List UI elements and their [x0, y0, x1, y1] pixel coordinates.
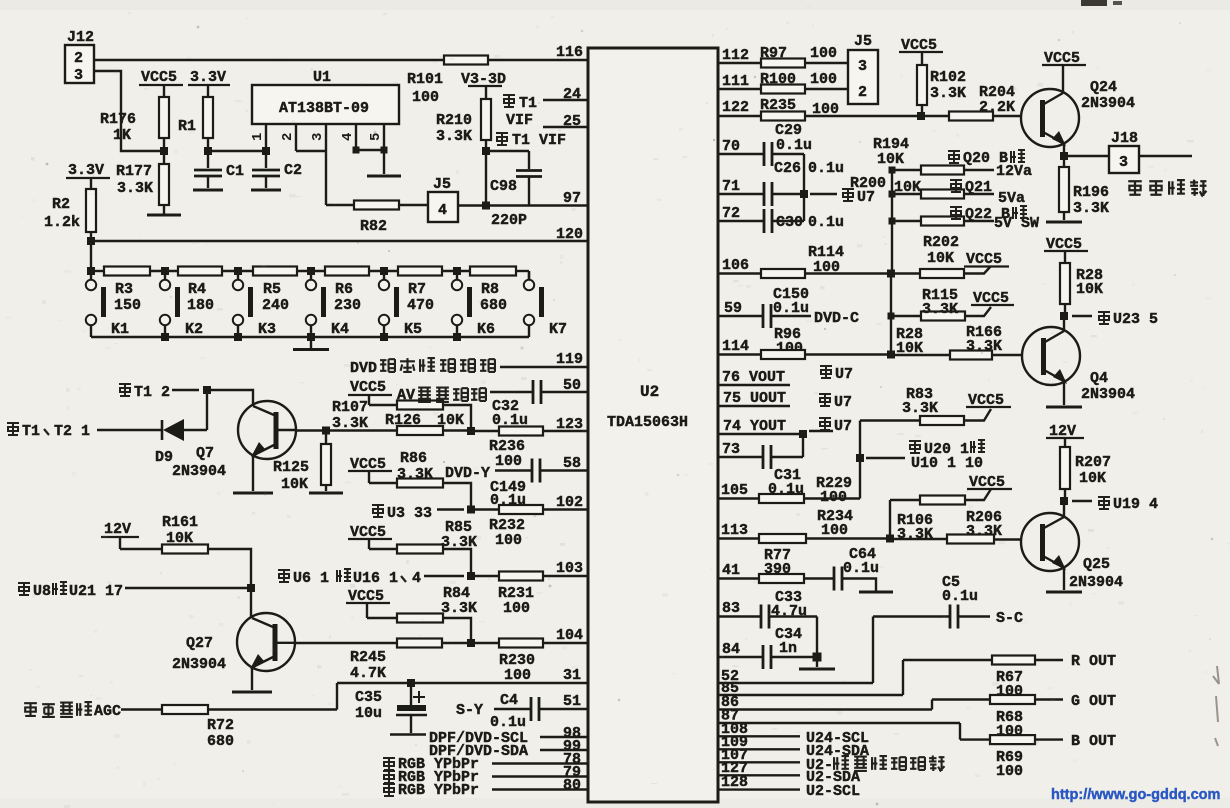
svg-text:C35: C35 — [355, 689, 382, 706]
label 接U7 (pin75) — [819, 394, 852, 411]
pin 5 of U1 — [368, 124, 384, 150]
label 接RGB YPbPr (pin80) — [383, 777, 589, 799]
svg-text:122: 122 — [722, 99, 749, 116]
capacitor C5 — [873, 605, 990, 629]
wire U1 pin3 down to R82 — [325, 151, 327, 205]
svg-text:VCC5: VCC5 — [350, 379, 386, 396]
svg-text:K2: K2 — [185, 321, 203, 338]
svg-text:83: 83 — [722, 600, 740, 617]
pin 73 of U2 wire — [717, 441, 763, 458]
svg-text:4: 4 — [438, 202, 447, 219]
pin 113 of U2 wire — [717, 522, 759, 539]
wire AGC line up to pin31 line — [336, 683, 338, 710]
label 接T1 VIF (pin25) — [496, 132, 566, 149]
scan artifact right edge — [1213, 666, 1219, 746]
svg-text:2: 2 — [74, 50, 83, 67]
pin 106 of U2 wire — [717, 257, 761, 274]
svg-text:119: 119 — [556, 351, 583, 368]
node C26 / 接U7 — [800, 190, 808, 198]
transistor Q27 2N3904 — [172, 588, 295, 673]
svg-text:3.3K: 3.3K — [436, 128, 472, 145]
power VCC5 (R86) — [348, 456, 392, 483]
wire C33 to C34 node — [816, 617, 818, 658]
svg-text:C2: C2 — [284, 162, 302, 179]
pin 114 of U2 wire — [717, 338, 761, 355]
capacitor C31 0.1u — [763, 434, 804, 498]
switch K6 — [452, 271, 495, 338]
wire C29/C26/C30 common — [803, 154, 805, 221]
svg-text:U7: U7 — [834, 394, 852, 411]
pin 71 of U2 wire — [717, 178, 764, 195]
pin 2 of U1 — [280, 124, 296, 151]
svg-text:680: 680 — [207, 733, 234, 750]
node 接T1-2 / D9 / Q7 collector — [203, 386, 211, 394]
svg-text:10K: 10K — [894, 179, 921, 196]
wire Q7 base to R126 — [296, 429, 397, 431]
svg-text:100: 100 — [495, 453, 522, 470]
resistor R230 100 — [471, 639, 543, 685]
svg-text:T2 1: T2 1 — [54, 423, 90, 440]
transistor Q24 2N3904 — [1021, 79, 1135, 147]
svg-text:2: 2 — [858, 84, 867, 101]
svg-text:680: 680 — [480, 297, 507, 314]
pin 70 of U2 wire — [717, 138, 764, 155]
resistor R236 100 — [471, 427, 543, 471]
svg-text:10K: 10K — [281, 476, 308, 493]
pin 83 of U2 wire — [717, 600, 761, 617]
node R2 / pin120 / key ladder — [87, 237, 95, 245]
pin 59 of U2 wire — [717, 300, 763, 317]
resistor R96 body — [761, 350, 891, 359]
label 接Q21 — [950, 179, 992, 196]
power VCC5 (R107) — [348, 379, 392, 405]
svg-text:2N3904: 2N3904 — [1081, 95, 1135, 112]
node keypad bottom 1 — [161, 333, 169, 341]
svg-text:Q24: Q24 — [1090, 79, 1117, 96]
svg-text:K1: K1 — [111, 321, 129, 338]
svg-text:75 UOUT: 75 UOUT — [723, 390, 786, 407]
svg-text:4: 4 — [340, 133, 356, 141]
svg-text:10K: 10K — [1076, 281, 1103, 298]
svg-text:3.3K: 3.3K — [930, 85, 966, 102]
capacitor C149 0.1u — [490, 459, 540, 510]
label DVD keypad signal input (pin119) — [350, 358, 495, 377]
svg-text:0.1u: 0.1u — [808, 214, 844, 231]
svg-text:R2: R2 — [52, 196, 70, 213]
svg-text:R161: R161 — [162, 514, 198, 531]
resistor R245 4.7K — [350, 639, 471, 683]
svg-text:AT138BT-09: AT138BT-09 — [279, 100, 369, 117]
ground below R177 — [147, 205, 181, 215]
node R176/R177/J12 — [160, 147, 168, 155]
svg-text:T1 VIF: T1 VIF — [512, 132, 566, 149]
resistor R176 1K — [100, 97, 169, 151]
svg-text:VCC5: VCC5 — [141, 69, 177, 86]
svg-text:104: 104 — [556, 627, 583, 644]
pin 120 of U2 wire — [91, 226, 589, 243]
resistor R161 10K — [120, 514, 251, 588]
node R207 / Q25 collector — [1060, 497, 1068, 505]
svg-text:RGB YPbPr: RGB YPbPr — [398, 782, 479, 799]
svg-text:106: 106 — [722, 257, 749, 274]
node keypad row 2 — [234, 267, 242, 275]
svg-text:U3 33: U3 33 — [387, 505, 432, 522]
power VCC5 (R84) — [346, 588, 390, 618]
power 12V (R207) — [1046, 423, 1084, 447]
wire J12 pin2 to U2 pin116 — [94, 59, 589, 61]
svg-text:U7: U7 — [857, 189, 875, 206]
svg-text:R107: R107 — [332, 399, 368, 416]
resistor R114 100 — [761, 244, 891, 278]
svg-text:10K: 10K — [927, 250, 954, 267]
svg-text:C26: C26 — [774, 160, 801, 177]
wire vertical R115 segment — [890, 274, 892, 355]
label U2-chip-select signal output — [806, 756, 944, 774]
node R96/R166 (pin114) — [887, 351, 895, 359]
pin 111 of U2 wire — [717, 73, 761, 90]
label 接Q22 B极 — [950, 206, 1027, 223]
svg-text:10K: 10K — [877, 151, 904, 168]
svg-text:R176: R176 — [100, 111, 136, 128]
power 3.3V (R1) — [188, 69, 230, 97]
svg-text:2N3904: 2N3904 — [1081, 386, 1135, 403]
label 接U20 1及 U10 1 10 — [866, 440, 985, 472]
svg-text:3.3K: 3.3K — [897, 526, 933, 543]
capacitor C30 0.1u — [764, 209, 844, 233]
label 接U7 (pin76) — [820, 366, 853, 383]
svg-text:U23 5: U23 5 — [1113, 311, 1158, 328]
svg-text:103: 103 — [556, 560, 583, 577]
svg-text:U6 1: U6 1 — [293, 570, 329, 587]
svg-text:R6: R6 — [335, 281, 353, 298]
capacitor C26 0.1u — [764, 160, 844, 206]
node keypad row 5 — [453, 267, 461, 275]
node keypad bottom 4 — [380, 333, 388, 341]
svg-text:70: 70 — [722, 138, 740, 155]
label AV video input (pin50) — [397, 387, 532, 404]
label DPF/DVD-SCL (pin98) — [429, 725, 589, 747]
pin 74 of U2 wire — [717, 418, 803, 435]
svg-text:12V: 12V — [104, 521, 131, 538]
label 接高频头AGC — [24, 702, 162, 720]
svg-text:1K: 1K — [113, 127, 131, 144]
pin 75 of U2 wire — [717, 390, 790, 407]
resistor R102 3.3K — [917, 65, 966, 116]
svg-text:R OUT: R OUT — [1071, 653, 1116, 670]
pin 4 of U1 — [340, 124, 356, 150]
node U1 pin1 / C2 — [262, 147, 270, 155]
capacitor C2 — [251, 151, 302, 190]
label C5 0.1u — [942, 574, 978, 605]
svg-text:100: 100 — [504, 667, 531, 684]
capacitor C4 0.1u — [490, 692, 539, 731]
svg-text:51: 51 — [563, 693, 581, 710]
wire node to Q7 collector — [207, 390, 253, 405]
svg-text:2N3904: 2N3904 — [172, 656, 226, 673]
scan artifact top right — [1081, 0, 1122, 6]
label 接U7 (pin74) — [809, 418, 852, 435]
svg-text:31: 31 — [563, 667, 581, 684]
svg-text:R7: R7 — [408, 281, 426, 298]
wire J12 pin3 down to R176 R177 node — [94, 71, 164, 151]
label 接T1 VIF (pin24) — [503, 95, 537, 129]
svg-text:230: 230 — [334, 297, 361, 314]
pin 1 of U1 — [250, 124, 266, 151]
power V3-3D — [461, 71, 506, 99]
svg-text:111: 111 — [722, 73, 749, 90]
pin 122 of U2 wire — [717, 99, 761, 116]
transistor Q25 2N3904 — [1021, 501, 1123, 591]
svg-text:AGC: AGC — [94, 703, 121, 720]
svg-text:Q21: Q21 — [965, 179, 992, 196]
pin 52 of U2 wire — [717, 668, 873, 685]
label 接RGB YPbPr (pin78) — [383, 751, 589, 773]
svg-text:116: 116 — [556, 44, 583, 61]
svg-text:Q7: Q7 — [196, 445, 214, 462]
label 接U8及U21 17 — [18, 582, 247, 600]
svg-text:73: 73 — [722, 441, 740, 458]
resistor R72 680 — [162, 705, 337, 750]
svg-text:240: 240 — [262, 297, 289, 314]
svg-text:R97: R97 — [760, 45, 787, 62]
pin 50 of U2 wire — [541, 377, 589, 394]
pin 58 of U2 wire — [540, 455, 589, 472]
svg-text:220P: 220P — [491, 212, 527, 229]
resistor R28 10K vertical — [1060, 263, 1103, 316]
power 12V (R161) — [101, 521, 139, 549]
power VCC5 (R102) — [899, 37, 943, 65]
svg-text:105: 105 — [721, 482, 748, 499]
svg-text:3.3K: 3.3K — [1073, 200, 1109, 217]
svg-text:S-C: S-C — [996, 610, 1023, 627]
svg-text:U16 1: U16 1 — [353, 570, 398, 587]
svg-text:http://www.go-gddq.com: http://www.go-gddq.com — [1051, 787, 1220, 803]
svg-text:5: 5 — [368, 133, 384, 141]
svg-text:R202: R202 — [923, 234, 959, 251]
svg-text:2N3904: 2N3904 — [1069, 574, 1123, 591]
node R28 / Q4 collector — [1060, 312, 1068, 320]
svg-text:10K: 10K — [1079, 470, 1106, 487]
node keypad row 4 — [380, 267, 388, 275]
svg-text:R126: R126 — [385, 412, 421, 429]
label 接U7 (pin71) — [810, 189, 875, 206]
wire Q27 base to R245 — [295, 642, 397, 644]
svg-text:113: 113 — [721, 522, 748, 539]
svg-text:R72: R72 — [207, 717, 234, 734]
resistor R85 3.3K — [369, 519, 477, 576]
svg-text:R102: R102 — [930, 69, 966, 86]
wire pin85 up to R67 — [902, 660, 904, 695]
svg-text:3.3K: 3.3K — [117, 180, 153, 197]
svg-text:180: 180 — [187, 297, 214, 314]
resistor R232 100 — [471, 505, 543, 549]
svg-text:2: 2 — [280, 133, 296, 141]
node pin74 / C31 — [799, 430, 807, 438]
svg-text:U21 17: U21 17 — [69, 583, 123, 600]
wire vertical distribution (R194 group) — [891, 170, 893, 274]
resistor R4 180 — [178, 267, 222, 315]
pin 104 of U2 wire — [543, 627, 589, 644]
pin 25 of U2 wire — [543, 113, 589, 130]
label DPF/DVD-SDA (pin99) — [429, 738, 589, 760]
resistor R206 3.3K — [890, 509, 1022, 544]
svg-text:Q4: Q4 — [1090, 370, 1108, 387]
svg-text:U19 4: U19 4 — [1113, 496, 1158, 513]
node Q27 collector / R161 — [247, 584, 255, 592]
svg-text:3.3K: 3.3K — [397, 466, 433, 483]
svg-text:AV: AV — [397, 387, 415, 404]
label 接U19 4 — [1072, 496, 1158, 513]
svg-text:112: 112 — [722, 47, 749, 64]
resistor R86 3.3K — [369, 450, 471, 510]
resistor R100 100 — [760, 71, 848, 94]
pin 3 of U1 — [310, 124, 326, 151]
resistor R6 230 — [325, 267, 369, 315]
svg-text:Q22 B: Q22 B — [965, 206, 1010, 223]
node R85/R231 (pin103) — [467, 572, 475, 580]
resistor R200 10K (5Va) — [850, 175, 1025, 207]
svg-text:R100: R100 — [760, 71, 796, 88]
resistor R207 10K — [1060, 447, 1111, 501]
node keypad bottom 5 — [453, 333, 461, 341]
resistor R97 100 — [760, 45, 848, 68]
pin 84 of U2 wire — [717, 641, 763, 658]
resistor R67 100 (R OUT) — [903, 656, 1063, 701]
pin 51 of U2 wire — [540, 693, 589, 710]
connector J5 top — [848, 33, 878, 104]
svg-text:J12: J12 — [67, 29, 94, 46]
resistor R8 680 — [470, 267, 516, 315]
svg-text:24: 24 — [563, 86, 581, 103]
svg-text:100: 100 — [810, 71, 837, 88]
svg-text:100: 100 — [810, 45, 837, 62]
svg-text:4: 4 — [412, 570, 421, 587]
node C35 top — [407, 679, 415, 687]
svg-text:D9: D9 — [155, 449, 173, 466]
switch K1 — [86, 280, 129, 338]
resistor R115 3.3K — [891, 287, 991, 321]
pin 102 of U2 wire — [543, 494, 589, 511]
svg-text:128: 128 — [721, 774, 748, 791]
svg-text:C4: C4 — [500, 692, 518, 709]
svg-text:T1: T1 — [519, 95, 537, 112]
resistor R229 100 — [759, 475, 860, 506]
node Q7 base / R125 — [322, 427, 330, 435]
svg-text:DVD: DVD — [350, 360, 377, 377]
svg-text:0.1u: 0.1u — [808, 160, 844, 177]
capacitor C64 0.1u — [834, 546, 893, 592]
svg-text:C1: C1 — [226, 163, 244, 180]
svg-text:R235: R235 — [760, 97, 796, 114]
wire keypad resistor row segments — [91, 270, 529, 272]
wire Q4 emitter to ground — [1046, 382, 1082, 407]
node keypad row left — [87, 267, 95, 275]
svg-text:Q20 B: Q20 B — [963, 150, 1008, 167]
pin 103 of U2 wire — [543, 560, 589, 577]
resistor R7 470 — [398, 267, 442, 315]
svg-text:K4: K4 — [331, 321, 349, 338]
resistor R3 150 — [104, 267, 150, 315]
pin 128 of U2 wire — [717, 774, 800, 791]
resistor ladder (5V SW) — [889, 215, 1040, 232]
svg-text:10K: 10K — [166, 530, 193, 547]
pin 72 of U2 wire — [717, 205, 764, 222]
svg-text:3.3K: 3.3K — [966, 338, 1002, 355]
svg-text:3.3K: 3.3K — [966, 523, 1002, 540]
switch K3 — [233, 271, 276, 338]
svg-text:R101: R101 — [407, 71, 443, 88]
power 3.3V (R2) — [66, 162, 110, 189]
pin 105 of U2 wire — [717, 482, 759, 499]
pin 87 of U2 wire — [717, 708, 960, 725]
resistor R210 3.3K — [436, 99, 491, 206]
capacitor C34 1n — [763, 626, 817, 669]
svg-text:3.3K: 3.3K — [922, 301, 958, 318]
wire Q25 emitter to ground — [1046, 568, 1082, 592]
wire pin87 down to R69 — [959, 723, 961, 740]
svg-text:3.3K: 3.3K — [332, 415, 368, 432]
svg-text:U7: U7 — [835, 366, 853, 383]
power VCC5 (R176) — [139, 69, 183, 97]
svg-text:G OUT: G OUT — [1071, 693, 1116, 710]
pin 85 of U2 wire — [717, 680, 903, 697]
transistor Q7 2N3904 — [172, 401, 296, 480]
resistor R83 3.3K — [860, 386, 991, 425]
resistor R5 240 — [253, 267, 297, 315]
svg-text:71: 71 — [722, 178, 740, 195]
svg-text:Q27: Q27 — [186, 635, 213, 652]
resistor R196 3.3K — [1046, 156, 1109, 222]
capacitor C35 10u electrolytic — [355, 683, 427, 735]
svg-text:J18: J18 — [1111, 130, 1138, 147]
svg-text:U10 1 10: U10 1 10 — [911, 455, 983, 472]
svg-text:2.2K: 2.2K — [979, 99, 1015, 116]
svg-text:150: 150 — [114, 297, 141, 314]
svg-text:0.1u: 0.1u — [942, 588, 978, 605]
capacitor C98 220P — [489, 151, 542, 229]
label 接Q20 B极 — [948, 150, 1025, 167]
node R234/R206/R106 (pin113) — [886, 535, 894, 543]
connector J18 — [1064, 130, 1192, 173]
svg-text:76 VOUT: 76 VOUT — [722, 369, 785, 386]
ground below C33/C34 node — [799, 657, 835, 669]
pin 97 label and wire — [486, 190, 589, 207]
svg-text:5Va: 5Va — [998, 190, 1025, 207]
resistor R231 100 — [471, 572, 543, 618]
node R107/R126/R236 (pin123) — [467, 427, 475, 435]
svg-text:10u: 10u — [355, 705, 382, 722]
wire U1 pin2 to pin3 — [296, 150, 326, 152]
power VCC5 (Q24) — [1042, 50, 1086, 93]
ic U1 AT138BT-09 — [252, 69, 399, 124]
svg-text:0.1u: 0.1u — [492, 412, 528, 429]
transistor Q4 2N3904 — [1022, 316, 1135, 403]
label R234 100 — [817, 508, 853, 539]
svg-text:R4: R4 — [188, 281, 206, 298]
ground keypad — [293, 337, 329, 350]
resistor R166 3.3K — [891, 324, 1022, 360]
pin 41 of U2 wire — [717, 562, 759, 579]
pin 76 of U2 wire — [717, 369, 790, 386]
node R1/C1 — [204, 147, 212, 155]
switch K5 — [379, 271, 422, 338]
svg-text:R125: R125 — [273, 459, 309, 476]
pin 108 of U2 wire — [717, 721, 800, 738]
svg-text:U8: U8 — [33, 583, 51, 600]
label 接U23 5 — [1072, 311, 1158, 328]
svg-text:1.2k: 1.2k — [44, 214, 80, 231]
resistor R202 10K body to VCC5 — [891, 266, 991, 278]
